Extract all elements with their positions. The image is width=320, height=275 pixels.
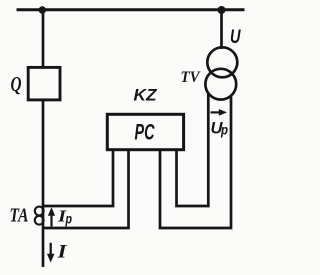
junction dot left [39, 6, 46, 13]
svg-text:U: U [230, 26, 241, 48]
junction dot right [218, 6, 226, 14]
wire: relay pin3 to TV secondary right [160, 96, 231, 228]
label I [56, 242, 67, 263]
label TA [10, 205, 29, 227]
voltage transformer TV winding 1 [207, 47, 237, 77]
svg-text:Q: Q [11, 72, 22, 96]
label PC [135, 120, 155, 145]
wire: TV primary from bus [220, 10, 223, 49]
relay box PC [107, 114, 183, 149]
wire: TA upper secondary to relay pin1 [43, 150, 113, 206]
label TV [181, 69, 201, 86]
svg-text:p: p [220, 122, 228, 138]
voltage transformer TV winding 2 [205, 69, 236, 100]
svg-text:I: I [56, 242, 67, 263]
label Up [211, 120, 229, 138]
label KZ [134, 87, 158, 105]
label Ip [57, 207, 73, 227]
wire: relay pin4 to TV secondary left [177, 93, 209, 206]
breaker Q [28, 67, 60, 100]
svg-text:TA: TA [10, 205, 29, 227]
label Q [11, 72, 22, 96]
wire: left feeder vertical [42, 10, 45, 267]
arrow Ip (up) [48, 207, 55, 226]
current transformer TA [35, 207, 44, 225]
arrow I (down, line current) [47, 243, 55, 263]
arrow Up (right) [211, 109, 228, 116]
busbar [17, 8, 245, 11]
wire: TA lower secondary to relay pin2 [43, 150, 129, 228]
svg-text:TV: TV [181, 69, 201, 86]
label U [230, 26, 241, 48]
svg-text:PC: PC [135, 120, 155, 145]
svg-text:KZ: KZ [134, 87, 158, 105]
svg-text:p: p [65, 211, 73, 227]
